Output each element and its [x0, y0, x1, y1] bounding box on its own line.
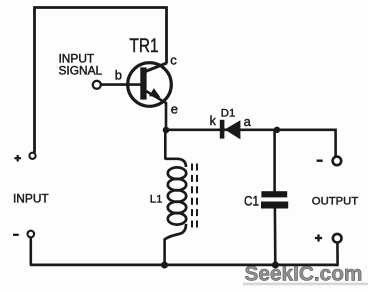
- inductor L1: [165, 159, 187, 240]
- terminal plus input: [29, 153, 35, 159]
- wire C1 top lead: [273, 130, 276, 192]
- watermark SeekIC.com: [243, 263, 368, 286]
- wire top rail: [35, 8, 167, 153]
- terminal minus input: [28, 231, 35, 238]
- svg-text:e: e: [171, 101, 178, 116]
- svg-text:SIGNAL: SIGNAL: [59, 64, 103, 78]
- plus sign output: [315, 234, 322, 241]
- plus sign input: [14, 155, 21, 162]
- svg-text:D1: D1: [221, 107, 235, 119]
- svg-text:b: b: [115, 68, 122, 83]
- minus sign input: [13, 234, 19, 236]
- diode D1: [220, 120, 241, 140]
- input signal terminal: [93, 81, 101, 89]
- svg-text:C1: C1: [244, 193, 259, 209]
- node C1/bottom rail junction: [272, 262, 279, 269]
- wire plus output drop: [337, 243, 338, 265]
- svg-text:INPUT: INPUT: [13, 192, 49, 206]
- wire diode rail: [166, 128, 336, 131]
- transistor TR1: [102, 63, 172, 107]
- capacitor C1: [261, 191, 288, 208]
- wire L1 bottom lead: [163, 239, 166, 265]
- svg-text:L1: L1: [150, 193, 163, 205]
- wire emitter to node: [165, 102, 168, 131]
- wire right corner down to minus terminal: [334, 130, 335, 157]
- minus sign output: [317, 159, 323, 161]
- svg-text:OUTPUT: OUTPUT: [312, 196, 359, 208]
- svg-text:TR1: TR1: [130, 36, 159, 57]
- node diode/C1 junction: [274, 127, 280, 133]
- wire L1 top lead: [164, 129, 167, 160]
- wire bottom rail: [30, 264, 339, 267]
- wire minus input drop: [29, 237, 32, 265]
- terminal plus output: [333, 234, 342, 243]
- node L1/bottom rail junction: [161, 262, 168, 269]
- svg-text:a: a: [244, 115, 251, 129]
- svg-text:k: k: [210, 114, 217, 128]
- wire C1 bottom lead: [274, 208, 277, 265]
- node emitter/diode junction: [163, 127, 170, 134]
- svg-text:c: c: [170, 52, 177, 67]
- terminal minus output: [333, 157, 342, 166]
- inductor back-turn marks: [192, 164, 197, 228]
